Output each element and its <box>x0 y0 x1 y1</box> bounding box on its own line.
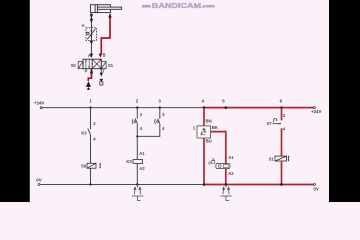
pushbutton contact <box>135 118 137 124</box>
wire rung1 top <box>90 108 92 129</box>
hose cylinder right port to valve B (red, highlighted) <box>101 17 110 54</box>
svg-text:B: B <box>103 53 106 58</box>
wire rung3 top <box>159 108 161 119</box>
wire BK output (red) to rung5 <box>211 132 226 164</box>
0V rail left (black) <box>40 184 204 186</box>
exhaust outlet U <box>100 81 103 85</box>
flow control check arrows <box>90 30 92 32</box>
svg-text:A2: A2 <box>139 166 145 171</box>
pushbutton contact (rung3) <box>158 118 160 124</box>
junction dot rung6 bottom <box>280 183 283 186</box>
contact K3 (NO) <box>88 129 91 136</box>
junction dots on +24V rail <box>89 106 91 108</box>
port T exhaust line <box>100 69 102 73</box>
junction dot rung4 bottom <box>203 183 206 186</box>
pushbutton actuator (rung3) <box>155 120 156 123</box>
exhaust arrow 1 <box>100 73 103 77</box>
solenoid S1 symbol (box with diagonal) <box>275 156 287 161</box>
wire flow control to valve A <box>90 40 92 57</box>
solenoid armature arrows <box>99 162 101 168</box>
solenoid S0 symbol (box with diagonal) <box>87 163 96 168</box>
sensor internal symbol <box>200 128 206 135</box>
svg-text:.com: .com <box>201 4 215 9</box>
port B arrow into valve (red line end) <box>99 54 102 58</box>
wire rung2 bottom <box>136 163 138 184</box>
svg-text:A2: A2 <box>228 171 234 176</box>
svg-text:P: P <box>85 69 88 74</box>
+24V rail left (black) <box>42 107 204 109</box>
svg-text:0T: 0T <box>267 121 272 126</box>
0V rail right (red, active) <box>204 184 313 186</box>
svg-text:K3: K3 <box>126 159 132 164</box>
svg-text:0V: 0V <box>313 186 318 191</box>
flow arrow down 3 <box>90 41 94 45</box>
flow arrow down 2 <box>90 19 93 23</box>
+24V right terminal <box>313 107 315 109</box>
bandicam watermark <box>141 1 214 10</box>
flow arrow down 1 <box>90 14 93 18</box>
port A arrow into valve <box>90 54 93 58</box>
svg-text:A: A <box>88 53 91 58</box>
junction dot rung2 bottom <box>136 183 138 185</box>
svg-text:BK: BK <box>212 125 218 130</box>
svg-text:+24V: +24V <box>34 101 44 106</box>
coil icon left (mini valve) <box>212 159 215 163</box>
wire rung6 middle (red) <box>281 128 283 156</box>
hose P to air supply (red) <box>88 69 91 81</box>
svg-text:K3: K3 <box>81 131 87 136</box>
timer contact 0T <box>273 119 281 124</box>
exhaust arrow 2 <box>100 79 103 83</box>
wire rung2 middle <box>136 125 138 160</box>
junction dot rung5 bottom <box>225 183 228 186</box>
+24V left terminal <box>40 107 42 109</box>
flow control valve (one-way) box <box>86 28 96 41</box>
0V right terminal <box>314 184 316 186</box>
cylinder 1A (double acting) body <box>91 5 111 13</box>
valve right chamber crossed arrows <box>93 60 102 69</box>
coil body <box>216 164 230 169</box>
svg-text:S0: S0 <box>81 164 87 169</box>
solenoid armature arrows (rung6) <box>288 155 290 162</box>
cylinder piston rod <box>97 7 121 9</box>
junction with rung3 branch <box>136 135 138 137</box>
0V left terminal <box>38 184 40 186</box>
wire rung4 top (red) <box>203 108 205 126</box>
svg-text:A1: A1 <box>139 151 145 156</box>
air supply arrows <box>86 81 91 87</box>
wire rung1 middle <box>90 135 92 163</box>
flow arrow up into cylinder right port <box>108 13 111 18</box>
left letterbox bar <box>0 0 30 202</box>
wire rung6 bottom (red) <box>281 161 283 185</box>
svg-text:0V: 0V <box>36 178 41 183</box>
relay coil K3 <box>133 160 143 164</box>
svg-text:S1: S1 <box>108 63 114 68</box>
junction dot rung1 bottom <box>89 183 91 185</box>
svg-text:S0: S0 <box>71 63 77 68</box>
wire rung2 top <box>136 108 138 119</box>
wire BU to 0V (red) <box>203 138 205 185</box>
svg-text:www.: www. <box>141 4 151 9</box>
wire cylinder left port down <box>90 13 92 28</box>
svg-text:+24V: +24V <box>311 109 321 114</box>
solenoid S1 box <box>101 62 106 69</box>
svg-text:S1: S1 <box>269 156 275 161</box>
pushbutton S1 actuator <box>132 120 133 123</box>
sensor box <box>197 126 211 138</box>
below-rail valve symbol at rung2 <box>132 185 143 201</box>
right letterbox bar <box>329 0 360 202</box>
svg-text:BANDICAM: BANDICAM <box>152 1 201 10</box>
svg-text:A1: A1 <box>228 155 234 160</box>
svg-text:A: A <box>82 23 85 28</box>
below-rail valve symbol at rung5 <box>221 185 232 201</box>
svg-text:BU: BU <box>206 139 212 144</box>
wire rung6 top (red) <box>281 108 283 121</box>
wire rung1 bottom <box>90 168 92 184</box>
svg-text:BN: BN <box>206 119 212 124</box>
valve left chamber straight arrows <box>86 60 89 68</box>
wire rung3 down and across to rung2 <box>137 125 160 137</box>
+24V rail right (red, active) <box>204 107 313 109</box>
valve 1V (5/2 way) body <box>83 59 101 68</box>
wire rung5 bottom (red) <box>225 169 227 185</box>
cylinder piston <box>94 5 96 13</box>
port P arrow into valve <box>90 69 93 74</box>
solenoid S0 box <box>78 62 83 69</box>
